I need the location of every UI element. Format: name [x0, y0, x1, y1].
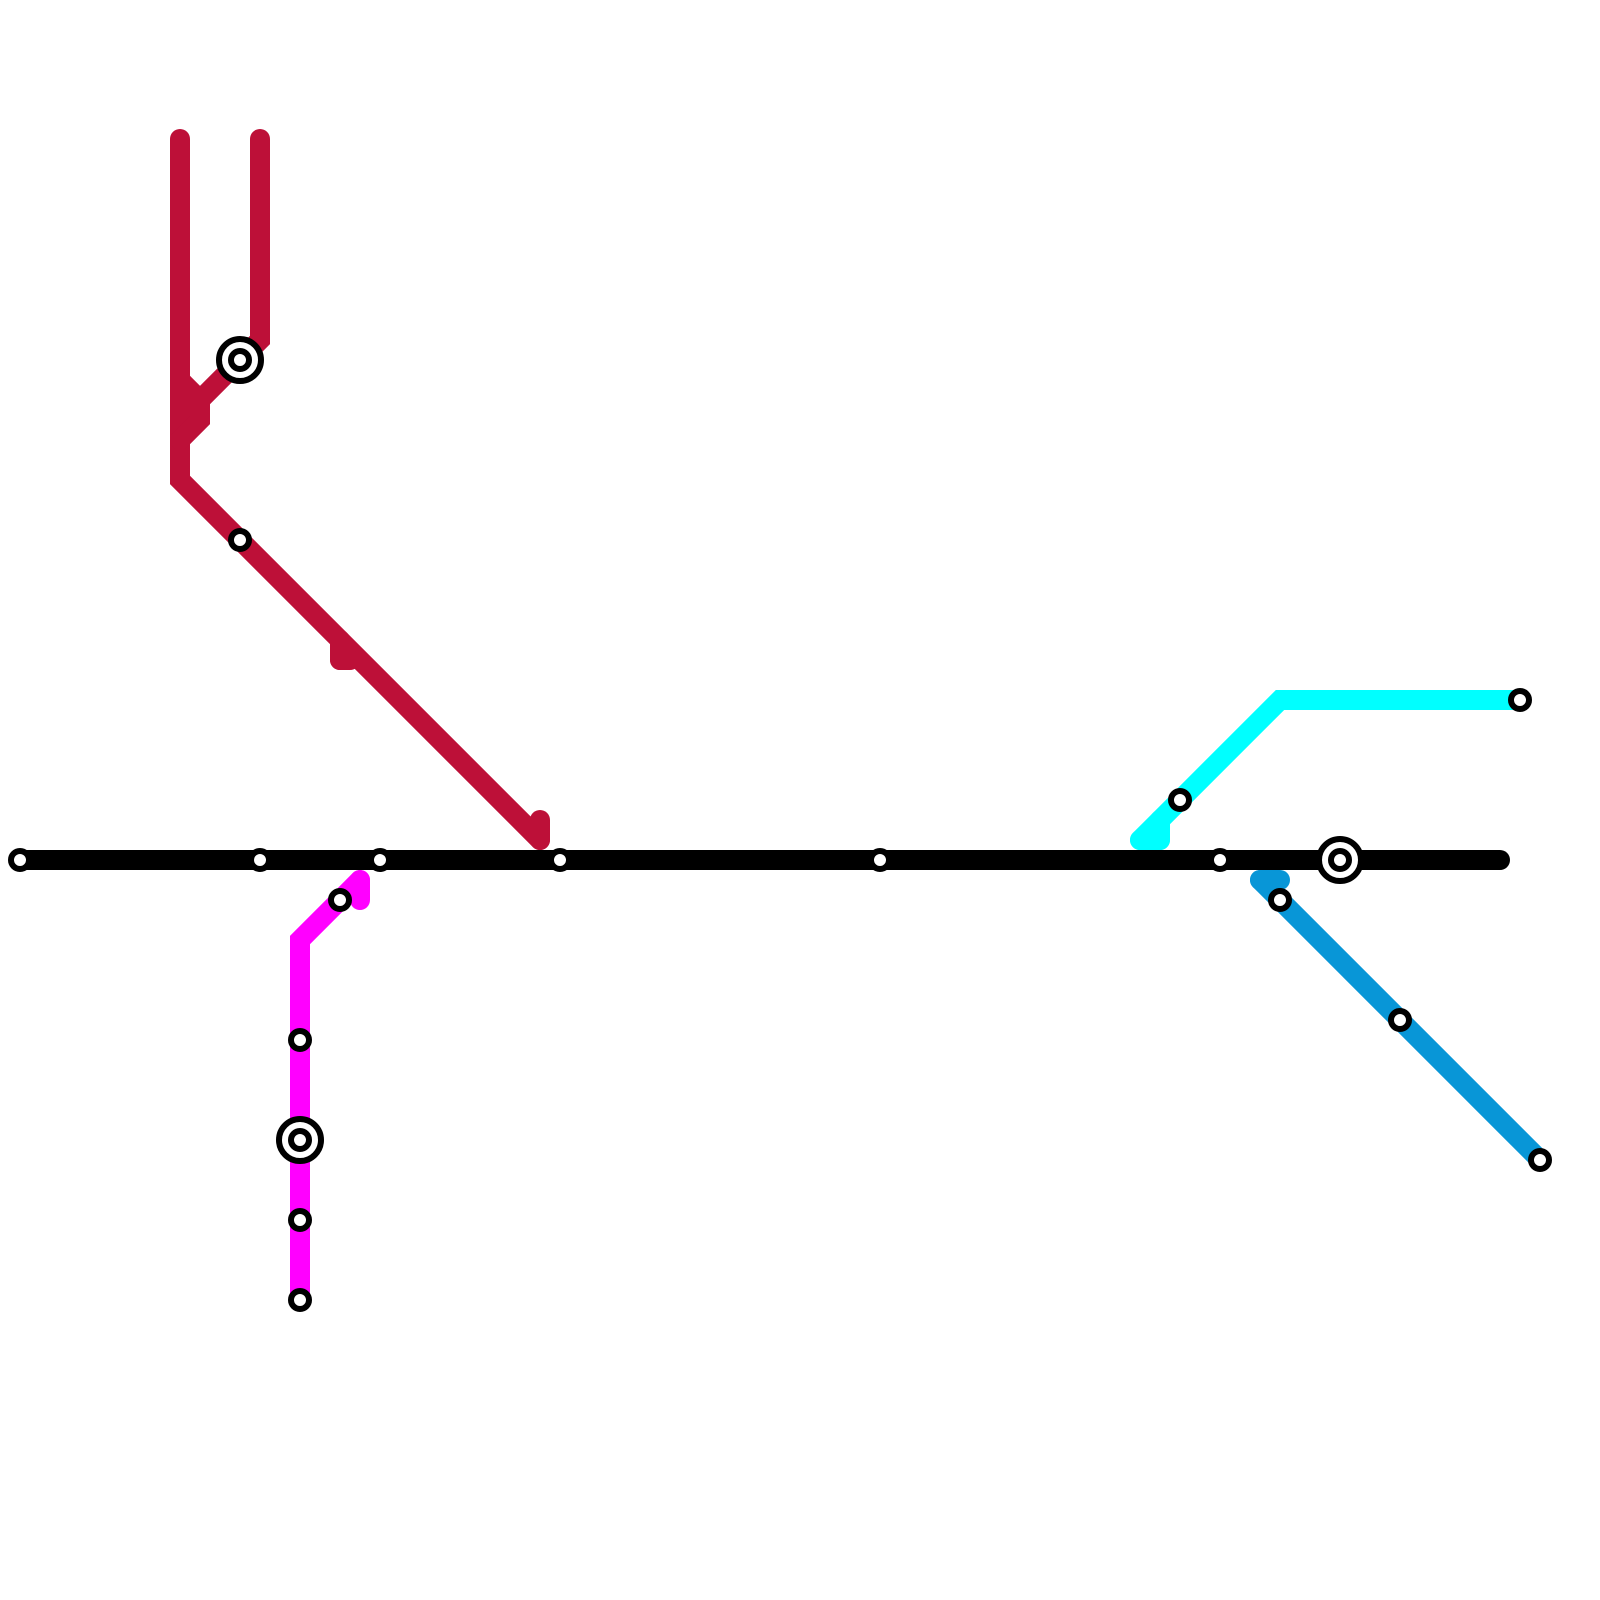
magenta line: stub at trunk [350, 880, 370, 900]
station: blue southeast terminus (1540,1160) [1531, 1151, 1549, 1169]
crimson line: jog bump on diagonal (horizontal part) [340, 650, 350, 670]
crimson line: stub at trunk [530, 820, 550, 840]
magenta line: main path [300, 880, 360, 1300]
interchange station: crimson (240,360) [219, 339, 261, 381]
station: magenta (300,1220) [291, 1211, 309, 1229]
interchange station: trunk (1340,860) [1319, 839, 1361, 881]
crimson line: right branch with jog [180, 139, 260, 440]
cyan line: main path [1140, 700, 1520, 840]
blue line: main path [1260, 880, 1540, 1160]
station: blue (1400,1020) [1391, 1011, 1409, 1029]
station: trunk (380,860) [371, 851, 389, 869]
crimson line: Y-split connector [180, 380, 200, 400]
black trunk line [20, 850, 1500, 870]
station: magenta south terminus (300,1300) [291, 1291, 309, 1309]
station: crimson diagonal (240,540) [231, 531, 249, 549]
station: cyan diagonal (1180,800) [1171, 791, 1189, 809]
station: magenta diagonal (340,900) [331, 891, 349, 909]
station: trunk (1220,860) [1211, 851, 1229, 869]
station: cyan east terminus (1520,700) [1511, 691, 1529, 709]
crimson line: jog bump on diagonal (vertical part) [330, 640, 350, 660]
station: trunk (880,860) [871, 851, 889, 869]
station: trunk (560,860) [551, 851, 569, 869]
cyan line: bottom hook horizontal [1140, 830, 1160, 850]
crimson line: left branch [180, 139, 540, 840]
station: magenta (300,1040) [291, 1031, 309, 1049]
blue line: horizontal tail at trunk [1260, 870, 1280, 890]
cyan line: bottom hook vertical stub [1150, 820, 1170, 840]
station: blue (1280,900) [1271, 891, 1289, 909]
station: trunk west terminus (20,860) [11, 851, 29, 869]
station: trunk (260,860) [251, 851, 269, 869]
interchange station: magenta (300,1140) [279, 1119, 321, 1161]
